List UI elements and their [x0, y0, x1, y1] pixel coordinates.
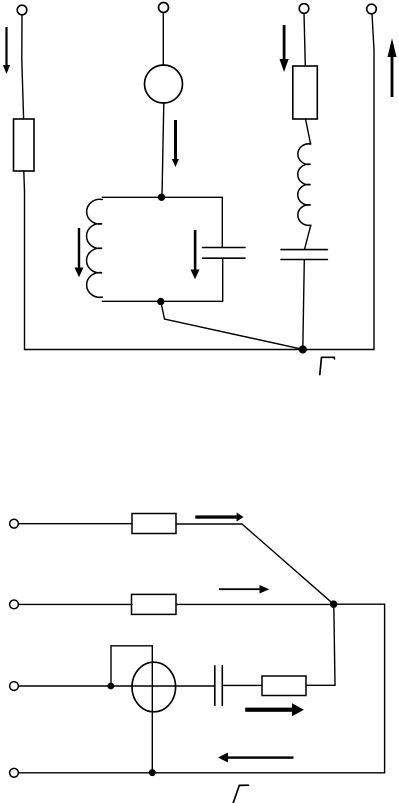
- wire right edge down: [384, 604, 386, 773]
- current arrow I3: [75, 228, 84, 277]
- terminal T7: [10, 682, 19, 691]
- wire slant: [242, 524, 334, 604]
- current arrow I9: [245, 703, 304, 716]
- terminal T2: [159, 3, 169, 13]
- wire: [176, 523, 242, 525]
- terminal T4: [367, 4, 377, 14]
- wire: [23, 171, 26, 350]
- wire node to right edge: [334, 603, 385, 605]
- node N4: [330, 600, 338, 608]
- wire bottom bus 2: [18, 772, 384, 774]
- resistor Z7: [262, 676, 306, 696]
- capacitor C2: [281, 250, 327, 260]
- label gamma top: [320, 357, 335, 374]
- current arrow I7: [195, 513, 243, 522]
- label gamma bottom: [233, 785, 249, 803]
- wire: [18, 685, 214, 687]
- wire loop right lower: [222, 259, 224, 302]
- wire bypass: [111, 646, 152, 686]
- source G2: [132, 662, 176, 712]
- wire: [305, 225, 311, 249]
- terminal T5: [10, 519, 19, 528]
- resistor Z5: [132, 514, 176, 534]
- wire slant to bus: [161, 303, 303, 350]
- inductor L2: [298, 144, 311, 226]
- node N6: [149, 769, 156, 776]
- resistor Z1: [14, 119, 35, 171]
- inductor L1: [87, 199, 103, 297]
- wire: [372, 14, 374, 350]
- wire loop right upper: [221, 197, 223, 247]
- node N2: [157, 298, 164, 305]
- terminal T3: [299, 4, 309, 14]
- node N3: [299, 345, 307, 353]
- current arrow I6: [388, 38, 397, 97]
- node N1: [158, 194, 165, 201]
- wire: [304, 13, 305, 66]
- current arrow I4: [191, 230, 200, 279]
- wire: [22, 15, 24, 119]
- capacitor C1: [203, 248, 246, 259]
- wire: [223, 684, 263, 686]
- resistor Z3: [293, 66, 318, 119]
- terminal T1: [17, 5, 27, 15]
- current arrow I8: [219, 585, 269, 594]
- source G1: [145, 65, 183, 103]
- terminal T6: [10, 600, 19, 609]
- wire through source: [151, 646, 153, 773]
- wire: [18, 603, 132, 605]
- node N5: [107, 683, 114, 690]
- wire: [306, 119, 311, 144]
- wire loop top: [102, 196, 222, 198]
- wire: [18, 523, 132, 525]
- current arrow I10: [218, 753, 294, 763]
- current arrow I5: [280, 25, 289, 72]
- current arrow I2: [172, 120, 179, 167]
- wire bottom bus: [25, 349, 375, 351]
- wire: [162, 13, 164, 65]
- capacitor C3: [215, 666, 223, 706]
- wire: [303, 260, 305, 349]
- current arrow I1: [3, 27, 10, 74]
- wire loop bottom: [102, 300, 222, 302]
- wire: [176, 603, 334, 605]
- wire: [306, 604, 335, 685]
- wire: [162, 103, 164, 196]
- terminal T8: [10, 768, 19, 777]
- resistor Z6: [132, 594, 177, 614]
